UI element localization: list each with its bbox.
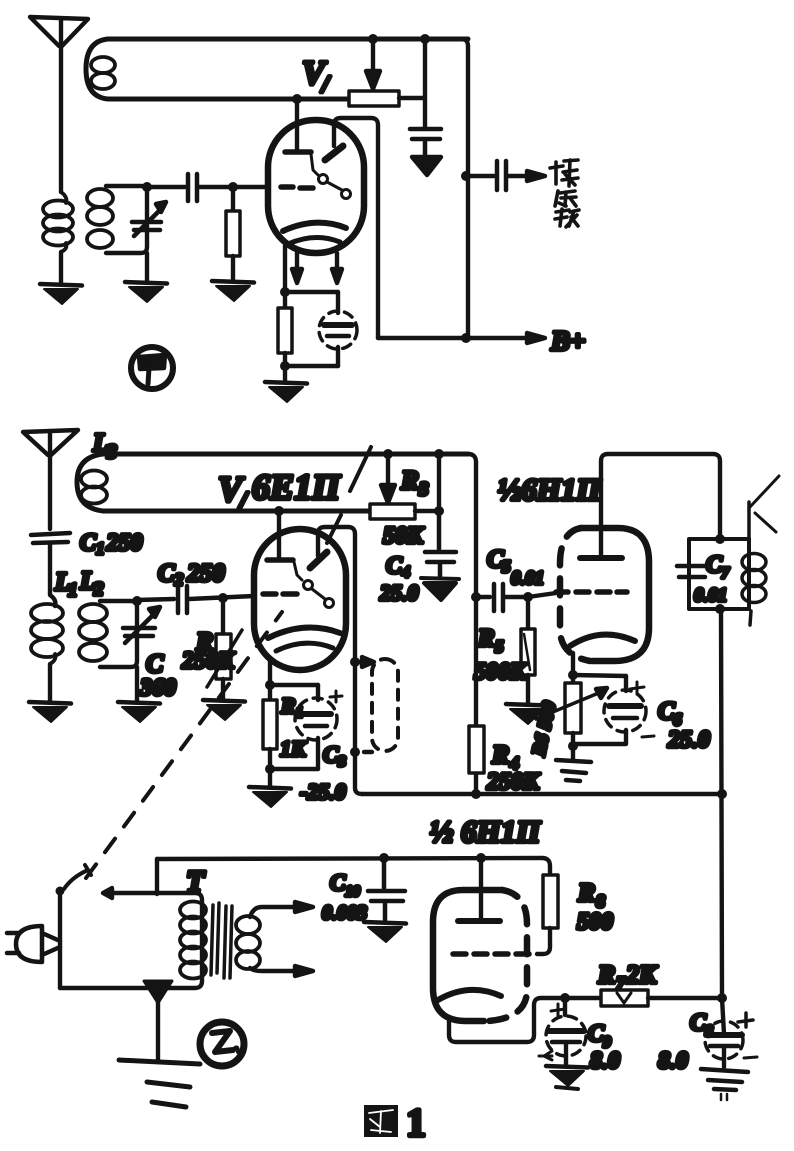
svg-text:½6Н1П: ½6Н1П xyxy=(498,472,601,507)
node dashed component top xyxy=(350,657,360,667)
svg-text:0.01: 0.01 xyxy=(694,585,727,606)
node top rail right xyxy=(420,34,430,44)
grid dashes (top circuit tube) xyxy=(281,187,313,188)
coil L1 (main circuit) xyxy=(31,604,63,664)
svg-text:R: R xyxy=(400,465,419,495)
svg-text:C3: C3 xyxy=(323,742,346,770)
svg-text:250K: 250K xyxy=(486,769,541,795)
arrow mark C9 xyxy=(539,1051,552,1060)
node cathode junction xyxy=(280,287,290,297)
node grid wire left xyxy=(142,182,152,192)
svg-text:7: 7 xyxy=(616,973,626,993)
resistor R3 50K xyxy=(370,504,415,519)
svg-text:C: C xyxy=(330,870,346,895)
node B+ rail xyxy=(461,333,471,343)
cathode frame tube3 xyxy=(449,998,565,1042)
wire plug risers xyxy=(58,892,62,988)
wire cap to grid resistor node xyxy=(199,185,268,189)
node cathode 6N1P xyxy=(568,670,578,680)
Chinese label char 3 xyxy=(555,209,579,227)
wire switch to transformer xyxy=(110,891,190,895)
electrolytic C6 xyxy=(573,676,646,744)
variable capacitor (top circuit) xyxy=(132,202,166,236)
transformer primary frame xyxy=(60,893,202,988)
svg-text:360: 360 xyxy=(139,675,176,701)
svg-text:/: / xyxy=(320,72,331,98)
cathode electrolytic capacitor (top circuit) xyxy=(319,292,357,366)
dashed gang line pot to switch xyxy=(86,612,282,878)
wire cathode frame top xyxy=(285,290,338,294)
wire rail down to R3 right node xyxy=(437,454,441,511)
transformer primary winding xyxy=(180,902,206,979)
tube 6N1P first half envelope solid part xyxy=(581,528,649,661)
wire B+ rail (main) xyxy=(362,792,722,797)
node top rail at R3 arrow xyxy=(383,449,393,459)
svg-text:500: 500 xyxy=(577,909,613,935)
output node xyxy=(461,171,471,181)
earphone coil xyxy=(742,502,766,625)
dashed phantom component (obround) xyxy=(372,659,398,751)
svg-text:10: 10 xyxy=(345,884,361,900)
series capacitor C2 xyxy=(178,586,187,613)
transformer core laminations xyxy=(211,903,232,978)
capacitor C10 0.003 xyxy=(368,858,405,921)
hatched ground under R6 xyxy=(556,760,591,781)
svg-text:25.0: 25.0 xyxy=(379,580,419,605)
node C7 box top xyxy=(715,534,725,544)
cathode lead down xyxy=(283,246,287,292)
wire L2 to C2 xyxy=(137,599,174,600)
C7 box xyxy=(689,539,749,609)
wire to ground xyxy=(268,769,272,786)
cathode arcs (top circuit tube) xyxy=(283,223,346,244)
oscillator coupling loop L3 (long winding) xyxy=(77,454,468,511)
dashed slashes near label xyxy=(327,447,371,543)
node top rail left xyxy=(368,34,378,44)
coupling capacitor C5 0.01 xyxy=(494,584,503,611)
svg-text:0.003: 0.003 xyxy=(322,902,367,924)
svg-text:8.0: 8.0 xyxy=(590,1048,620,1074)
switch lever xyxy=(64,865,91,889)
variable capacitor C 360 xyxy=(123,607,160,643)
feedback loop winding (top circuit) with two turns xyxy=(86,39,468,99)
arrow to dashed component xyxy=(355,657,374,667)
wire cathode frame bottom xyxy=(285,364,338,368)
cathode resistor R1 1K xyxy=(263,685,277,769)
plus mark C6 xyxy=(630,682,644,694)
svg-text:1: 1 xyxy=(68,580,78,601)
tube V1 6E1P envelope (main circuit) xyxy=(254,529,346,670)
plate bar 6N1P xyxy=(580,555,622,561)
node C8 xyxy=(717,993,727,1003)
svg-text:R1: R1 xyxy=(280,693,303,721)
plate lead tube3 xyxy=(458,858,500,921)
wire L2 frame to ground xyxy=(145,253,149,281)
wire L1 to ground xyxy=(48,664,52,701)
svg-text:5: 5 xyxy=(502,557,511,576)
svg-text:500K: 500K xyxy=(474,659,528,685)
grid resistor R5 500K xyxy=(521,597,535,703)
cathode lead down xyxy=(268,660,272,685)
heater pin arrows below tube xyxy=(292,253,342,283)
Chinese label (to audio amp) char 1 xyxy=(550,160,578,186)
minus mark C8 xyxy=(744,1057,757,1058)
antenna series capacitor C1 xyxy=(31,533,70,543)
ground under C10 xyxy=(364,922,406,942)
ground under tuned circuit xyxy=(125,282,167,302)
wire R6 to ground xyxy=(571,746,575,759)
wire to ground xyxy=(283,366,287,381)
plus mark C3 xyxy=(330,691,342,702)
grid leak resistor (top circuit) xyxy=(226,187,240,281)
wire C6 frame top xyxy=(573,675,626,676)
wire C7 bottom down to rail and below xyxy=(721,609,722,998)
svg-text:5: 5 xyxy=(495,637,504,656)
figure label black block xyxy=(364,1105,398,1137)
plate lead (top circuit tube) xyxy=(285,94,311,152)
arrow from top rail into resistor xyxy=(366,39,380,89)
wire to C5 xyxy=(476,595,490,599)
capacitor C4 xyxy=(425,511,456,577)
cathode arc 6N1P xyxy=(570,635,635,646)
node cathode bottom (main) xyxy=(265,764,275,774)
arrow from rail into R3 xyxy=(381,454,395,503)
deflection link and target circles (main tube) xyxy=(294,562,334,608)
eye electrode diagonal + link over to right vertical xyxy=(310,527,362,794)
svg-text:250K: 250K xyxy=(181,648,236,674)
node cathode junction (main tube) xyxy=(265,680,275,690)
wire cathode frame top xyxy=(270,683,318,687)
ground under C9 xyxy=(546,1066,588,1089)
tube 6N1P first half envelope dashed side xyxy=(560,528,590,661)
wire cathode frame bottom xyxy=(270,767,318,771)
node cathode junction tube3 xyxy=(560,993,570,1003)
wire to earth ground xyxy=(156,998,160,1060)
secondary lead bottom with arrow xyxy=(250,966,313,976)
tube V1 envelope (top circuit) xyxy=(268,120,364,253)
wire C5 to grid node xyxy=(505,595,528,599)
cathode lead 6N1P xyxy=(571,653,575,675)
wire C1 to L1 xyxy=(50,543,55,606)
tube3 envelope solid part xyxy=(433,890,502,1021)
antenna (main circuit) xyxy=(23,430,78,529)
wire C2 to grid xyxy=(189,596,254,599)
cathode resistor (top circuit) xyxy=(278,292,292,366)
svg-text:1: 1 xyxy=(406,1100,426,1145)
cathode pot R6 500 xyxy=(536,675,607,746)
ground under L1 xyxy=(29,702,71,722)
cathode arc tube3 xyxy=(438,990,501,1000)
wire to R7 xyxy=(565,996,601,1000)
svg-text:8.0: 8.0 xyxy=(658,1048,688,1074)
B+ arrow xyxy=(466,333,545,343)
capacitor C7 bars xyxy=(677,566,707,577)
series grid capacitor (top circuit) xyxy=(188,174,197,201)
top feed wire xyxy=(157,858,550,875)
ground under R1 C3 xyxy=(249,787,291,807)
node L2 top xyxy=(132,596,142,606)
svg-text:½ 6Н1П: ½ 6Н1П xyxy=(430,814,541,849)
node C10 xyxy=(379,853,389,863)
node rail right xyxy=(717,789,727,799)
node grid resistor xyxy=(228,182,238,192)
corner top rail to right vertical xyxy=(425,39,468,338)
svg-text:2K: 2K xyxy=(625,960,658,989)
resistor R7 2K xyxy=(601,990,648,1006)
dashed connector bottom xyxy=(357,750,372,754)
node R6 bottom xyxy=(568,741,578,751)
circled Z symbol xyxy=(200,1022,244,1066)
ground under antenna coil xyxy=(40,284,82,304)
Chinese label char 2 xyxy=(555,191,576,206)
svg-text:R: R xyxy=(477,625,495,652)
B+ rail wire xyxy=(378,336,466,340)
resistor R4 250K xyxy=(469,726,484,773)
svg-text:7: 7 xyxy=(721,565,730,582)
node C5 tap xyxy=(471,592,481,602)
wire R7 to C8 node xyxy=(648,996,722,1000)
grid dashes (main tube) xyxy=(263,591,297,597)
coil L1 (top circuit antenna coil) xyxy=(43,192,73,252)
node C7 box bottom xyxy=(715,604,725,614)
volume potentiometer R 250K xyxy=(207,598,242,699)
cathode arcs (main tube) xyxy=(268,628,340,651)
wire vertical from top rail through resistor output to bypass cap xyxy=(423,39,427,127)
electrolytic C8 8.0 xyxy=(705,998,743,1067)
ground under R5 xyxy=(506,704,548,724)
ground under cathode network xyxy=(265,382,307,402)
wire varcap to ground xyxy=(135,667,139,701)
antenna (top circuit) xyxy=(30,17,88,192)
svg-text:25.0: 25.0 xyxy=(667,727,710,753)
svg-text:R6 500: R6 500 xyxy=(528,699,560,759)
svg-text:C4: C4 xyxy=(386,553,410,581)
transformer secondary winding xyxy=(236,916,260,969)
svg-text:R: R xyxy=(491,740,509,769)
node rail R4 xyxy=(471,789,481,799)
mains plug xyxy=(7,926,60,962)
svg-text:C1250: C1250 xyxy=(80,530,143,558)
junction blob to ground xyxy=(144,981,172,1003)
node above R3 right xyxy=(434,449,444,459)
output coupling capacitor xyxy=(497,161,506,190)
svg-text:-25.0: -25.0 xyxy=(300,779,346,804)
coil frame L2 (main circuit) xyxy=(100,601,137,667)
wire resistor to vertical xyxy=(399,96,425,100)
node dashed component bottom xyxy=(350,747,360,757)
node plate lead tube3 xyxy=(476,853,486,863)
svg-text:R: R xyxy=(597,960,615,989)
svg-text:0.01: 0.01 xyxy=(511,568,544,589)
plate lead (main tube) xyxy=(267,506,293,560)
wire to series cap xyxy=(147,185,185,189)
ground under grid resistor xyxy=(212,281,254,301)
plus mark C9 xyxy=(551,1004,565,1016)
corner top rail to long right vertical xyxy=(439,454,476,794)
deflection link and target circles inside tube xyxy=(311,154,351,199)
wire switch riser xyxy=(155,859,159,894)
switch fixed contact arrow xyxy=(103,888,112,898)
node volume pot tap xyxy=(218,593,228,603)
electrolytic C9 8.0 xyxy=(546,998,586,1066)
svg-text:B+: B+ xyxy=(550,326,586,357)
plate-supply resistor (top circuit, on loop bottom line) xyxy=(349,91,399,106)
wire grid node into tube xyxy=(528,593,556,597)
secondary lead top with arrow xyxy=(250,902,313,917)
ground under potentiometer xyxy=(203,700,245,720)
svg-text:R: R xyxy=(577,878,595,907)
ground arrow under bypass cap xyxy=(412,157,441,175)
resistor R8 500 xyxy=(537,875,558,954)
minus mark C6 xyxy=(642,736,654,737)
svg-text:C2250: C2250 xyxy=(158,560,225,589)
wire antenna coil to ground xyxy=(59,252,63,283)
output arrow xyxy=(508,171,545,181)
capacitor bypass (top circuit) xyxy=(410,129,441,155)
svg-text:C: C xyxy=(146,649,164,678)
wire R3 to node xyxy=(415,509,439,513)
ground under varcap xyxy=(118,702,160,722)
headphone symbol circled (top circuit) xyxy=(131,347,173,389)
svg-text:3: 3 xyxy=(418,479,429,500)
grid dashes 6N1P xyxy=(556,589,627,595)
electrolytic C3 xyxy=(295,685,337,769)
node cathode bottom xyxy=(280,361,290,371)
ground under C4 xyxy=(421,578,459,600)
eye electrode diagonal + link to top rail at y118 xyxy=(325,118,378,338)
coil frame L2 (top circuit) xyxy=(106,186,147,253)
svg-text:2: 2 xyxy=(93,579,104,600)
svg-text:1K: 1K xyxy=(280,736,307,761)
svg-text:50K: 50K xyxy=(383,523,425,549)
plus mark C8 xyxy=(738,1013,753,1027)
earphone cord strokes xyxy=(749,476,779,532)
wire to output cap xyxy=(466,174,494,178)
svg-text:8: 8 xyxy=(705,1023,713,1040)
bar ground under C8 xyxy=(701,1069,748,1100)
node R3 right xyxy=(434,506,444,516)
svg-text:6Е1П: 6Е1П xyxy=(252,467,341,507)
tube3 envelope dashed side xyxy=(488,890,527,1021)
svg-text:8: 8 xyxy=(596,891,605,911)
node grid 6N1P xyxy=(523,592,533,602)
earth ground xyxy=(119,1060,200,1107)
grid dashes tube3 xyxy=(453,951,529,957)
plate loop 6N1P first half xyxy=(601,454,720,556)
switch contact node xyxy=(56,887,65,896)
